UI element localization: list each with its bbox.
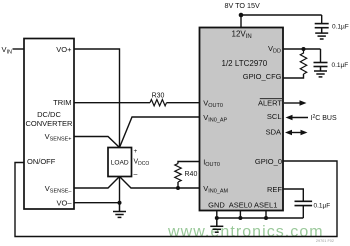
- svg-text:ALERT: ALERT: [258, 98, 282, 107]
- svg-text:LOAD: LOAD: [111, 159, 129, 166]
- wire SCL arrow in: [286, 115, 309, 121]
- svg-text:8V TO 15V: 8V TO 15V: [225, 1, 261, 10]
- svg-text:DC/DC: DC/DC: [37, 110, 61, 119]
- svg-text:ON/OFF: ON/OFF: [27, 157, 56, 166]
- node junction ASEL0: [238, 216, 242, 220]
- ground under C1: [315, 28, 328, 39]
- svg-text:1/2 LTC2970: 1/2 LTC2970: [222, 59, 268, 68]
- ground under load: [113, 203, 126, 218]
- wire ASEL1 pin stub: [265, 211, 267, 219]
- wire supply to 12VIN: [240, 15, 242, 28]
- wire REF to C3: [283, 189, 303, 201]
- svg-text:–: –: [134, 172, 138, 179]
- wire SDA arrow bidirectional: [285, 130, 308, 136]
- wire TRIM to R30: [74, 102, 150, 104]
- wire load bottom to VIN0_AM: [120, 177, 200, 189]
- wire ON/OFF to GPIO_0 (bottom route): [15, 161, 337, 237]
- svg-text:www.entronics.com: www.entronics.com: [167, 224, 324, 241]
- node junction R40/VIN0_AM: [176, 186, 180, 190]
- svg-text:SDA: SDA: [266, 127, 281, 136]
- wire ASEL0 pin stub: [239, 211, 241, 219]
- wire supply to C1: [241, 14, 322, 16]
- wire VDD: [283, 48, 321, 50]
- svg-text:VO+: VO+: [56, 45, 72, 54]
- svg-text:VO–: VO–: [56, 198, 72, 207]
- node junction supply: [239, 13, 244, 18]
- svg-text:GPIO_0: GPIO_0: [255, 157, 282, 166]
- svg-text:VDCO: VDCO: [134, 159, 150, 167]
- load box: [108, 148, 132, 177]
- svg-text:0.1µF: 0.1µF: [332, 24, 349, 31]
- node junction VDD: [302, 47, 306, 51]
- svg-text:+: +: [134, 148, 138, 155]
- pin label ALERT: [258, 98, 282, 107]
- capacitor C1 0.1uF: [315, 15, 349, 31]
- wire IOUT0 to R40: [178, 162, 200, 164]
- resistor VDD-GPIO_CFG: [300, 49, 306, 74]
- watermark: [167, 224, 324, 241]
- svg-text:CONVERTER: CONVERTER: [26, 119, 74, 128]
- ground under C2: [314, 67, 327, 77]
- svg-text:SCL: SCL: [267, 112, 282, 121]
- svg-text:ASEL0: ASEL0: [229, 201, 252, 210]
- svg-text:REF: REF: [267, 185, 282, 194]
- wire R30 to VOUT0: [167, 102, 200, 104]
- wire GPIO_CFG: [283, 74, 304, 78]
- svg-text:0.1µF: 0.1µF: [332, 62, 349, 69]
- wire GND pin stub: [216, 211, 218, 219]
- wire VO+ to load top: [74, 49, 120, 148]
- svg-text:VIN: VIN: [2, 45, 13, 56]
- node junction VO-/load: [118, 201, 122, 205]
- wire VSENSE+ to load top: [74, 137, 120, 148]
- wire load top to VIN0_AP: [120, 117, 200, 148]
- wire VIN to DC/DC: [13, 48, 25, 50]
- svg-text:0.1µF: 0.1µF: [314, 203, 331, 210]
- resistor R30: [150, 92, 167, 106]
- DC/DC converter module box: [24, 39, 74, 210]
- wire R40 to VIN0_AM wire: [177, 182, 179, 188]
- svg-text:I2C BUS: I2C BUS: [311, 114, 337, 122]
- wire C3 to ASEL net: [302, 206, 304, 218]
- wire ALERT arrow out: [284, 100, 307, 106]
- svg-text:R40: R40: [185, 171, 198, 178]
- wire VO- to load ground: [74, 202, 120, 204]
- svg-text:29701 F02: 29701 F02: [316, 239, 334, 243]
- ground under GND pin: [210, 218, 223, 232]
- wire load bottom vertical: [119, 177, 121, 204]
- capacitor C2 0.1uF: [314, 49, 349, 69]
- capacitor C3 0.1uF: [295, 201, 331, 209]
- resistor R40: [175, 164, 198, 182]
- svg-text:R30: R30: [152, 92, 165, 99]
- node junction ASEL1: [264, 216, 268, 220]
- IC U1 1/2 LTC2970: [200, 28, 284, 211]
- node junction GND: [215, 216, 219, 220]
- svg-text:GPIO_CFG: GPIO_CFG: [243, 72, 282, 81]
- svg-text:GND: GND: [208, 201, 225, 210]
- wire ASEL net: [217, 217, 303, 219]
- wire VSENSE- to load bottom: [74, 177, 120, 189]
- svg-text:TRIM: TRIM: [53, 98, 71, 107]
- svg-text:ASEL1: ASEL1: [254, 201, 277, 210]
